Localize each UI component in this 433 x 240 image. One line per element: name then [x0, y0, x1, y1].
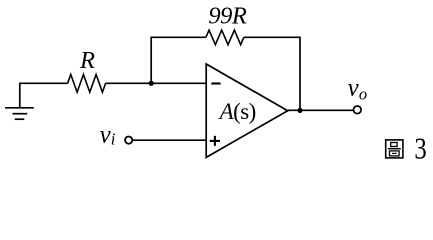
svg-text:3: 3 — [414, 132, 426, 166]
svg-text:R: R — [79, 47, 95, 74]
node A junction dot inverting input — [149, 81, 154, 86]
wire feedback left vertical and top to resistor 99R — [151, 37, 206, 83]
resistor R1 value R — [68, 75, 106, 93]
caption character tu (figure) drawn as strokes — [386, 140, 403, 158]
svg-text:i: i — [111, 129, 116, 148]
resistor R2 value 99R — [206, 30, 244, 45]
node B junction dot output — [297, 108, 302, 113]
op-amp minus sign — [211, 82, 220, 84]
terminal circle vi — [125, 137, 132, 144]
wire ground to resistor R — [20, 82, 68, 85]
wire input vi to non-inverting input — [133, 139, 207, 141]
op-amp U1 — [206, 64, 288, 157]
svg-text:v: v — [348, 75, 360, 102]
caption figure number 3 — [414, 132, 426, 166]
terminal circle vo — [354, 106, 362, 114]
svg-text:A(s): A(s) — [218, 99, 256, 124]
svg-text:99R: 99R — [208, 2, 247, 29]
svg-text:o: o — [359, 85, 367, 104]
ground — [5, 83, 34, 119]
wire op-amp output to terminal vo — [288, 109, 354, 111]
op-amp plus sign — [210, 136, 220, 146]
wire feedback top right and down to output — [244, 37, 300, 110]
wire resistor R to op-amp inverting input — [106, 82, 207, 84]
